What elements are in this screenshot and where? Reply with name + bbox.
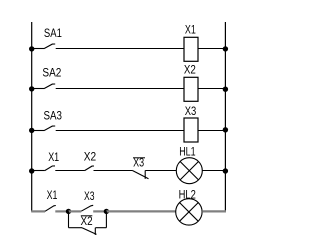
svg-text:SA1: SA1 <box>44 28 62 40</box>
relay coil X1 <box>184 37 198 61</box>
contact X2 (NC, branch) <box>82 228 97 235</box>
wire node A to contact X3 (gray) <box>69 210 82 212</box>
contact X1 (NO, row4) <box>45 166 55 171</box>
svg-text:X1: X1 <box>185 25 196 37</box>
wire branch bottom left <box>69 227 83 229</box>
node A (row5 left junction) <box>66 209 71 214</box>
svg-text:SA2: SA2 <box>42 67 61 79</box>
wire row1 left stub <box>32 48 44 50</box>
node: right rail / row2 junction <box>223 87 228 92</box>
wire row4 between X1 and X2 contacts <box>55 170 84 172</box>
label X3-bar (row4 NC contact) <box>133 158 145 170</box>
wire row4 between X2 and NC X3 contacts <box>94 170 133 172</box>
wire branch: node A down <box>68 211 70 227</box>
wire row2 left stub <box>32 88 44 90</box>
lamp HL1 <box>176 158 202 184</box>
node: left rail / row2 junction <box>29 86 34 91</box>
contact X2 (NO, row4) <box>85 166 94 171</box>
svg-text:X3: X3 <box>133 158 144 170</box>
contact X1 (NO, row5) <box>45 206 56 212</box>
node: right rail / row1 junction <box>223 46 228 51</box>
svg-text:X1: X1 <box>47 190 58 202</box>
svg-text:SA3: SA3 <box>44 111 63 123</box>
wire row3 to coil X3 <box>56 130 184 132</box>
wire row5 left rail to contact X1 (highlighted gray) <box>31 210 45 212</box>
node: left rail / row4 junction <box>29 168 34 173</box>
wire lamp HL1 to right rail <box>202 170 225 172</box>
contact X3 (NO, row5) <box>81 205 93 211</box>
relay coil X2 <box>184 77 198 101</box>
node: left rail / row1 junction <box>29 46 34 51</box>
wire coil X1 to right rail <box>198 48 225 50</box>
svg-text:X1: X1 <box>48 152 59 164</box>
lamp HL2 <box>176 199 202 225</box>
svg-text:HL2: HL2 <box>179 190 196 202</box>
label X2-bar (branch NC contact) <box>81 216 93 228</box>
svg-text:HL1: HL1 <box>179 147 195 159</box>
switch SA3 <box>44 126 55 131</box>
wire row3 left stub <box>32 130 44 132</box>
wire row5 X1 contact to node A (gray) <box>55 210 68 212</box>
svg-text:X2: X2 <box>81 216 93 228</box>
svg-text:X3: X3 <box>185 106 197 118</box>
node B (row5 right junction) <box>104 209 109 214</box>
wire row4 NC contact to lamp HL1 <box>145 170 176 172</box>
wire coil X2 to right rail <box>198 88 225 90</box>
wire row4 left stub <box>32 170 45 172</box>
contact X3 (NC, row4) <box>132 170 148 179</box>
wire row2 to coil X2 <box>56 88 184 90</box>
wire lamp HL2 to right rail (gray) <box>202 210 226 212</box>
wire branch bottom right <box>95 227 106 229</box>
right power rail <box>224 22 226 211</box>
svg-text:X2: X2 <box>84 152 96 164</box>
node: right rail / row4 junction <box>223 168 228 173</box>
svg-text:X2: X2 <box>184 65 196 77</box>
left power rail <box>31 22 33 211</box>
wire branch: up to node B <box>105 211 107 227</box>
node: left rail / row3 junction <box>29 128 34 133</box>
switch SA2 <box>44 84 55 89</box>
relay coil X3 <box>184 118 198 142</box>
switch SA1 <box>44 44 55 49</box>
node: right rail / row3 junction <box>223 127 228 132</box>
wire row1 to coil X1 <box>56 48 184 50</box>
wire coil X3 to right rail <box>198 130 225 132</box>
svg-text:X3: X3 <box>84 191 95 203</box>
wire contact X3 to node B (gray) <box>93 210 106 212</box>
wire node B to lamp HL2 (gray) <box>106 210 176 212</box>
